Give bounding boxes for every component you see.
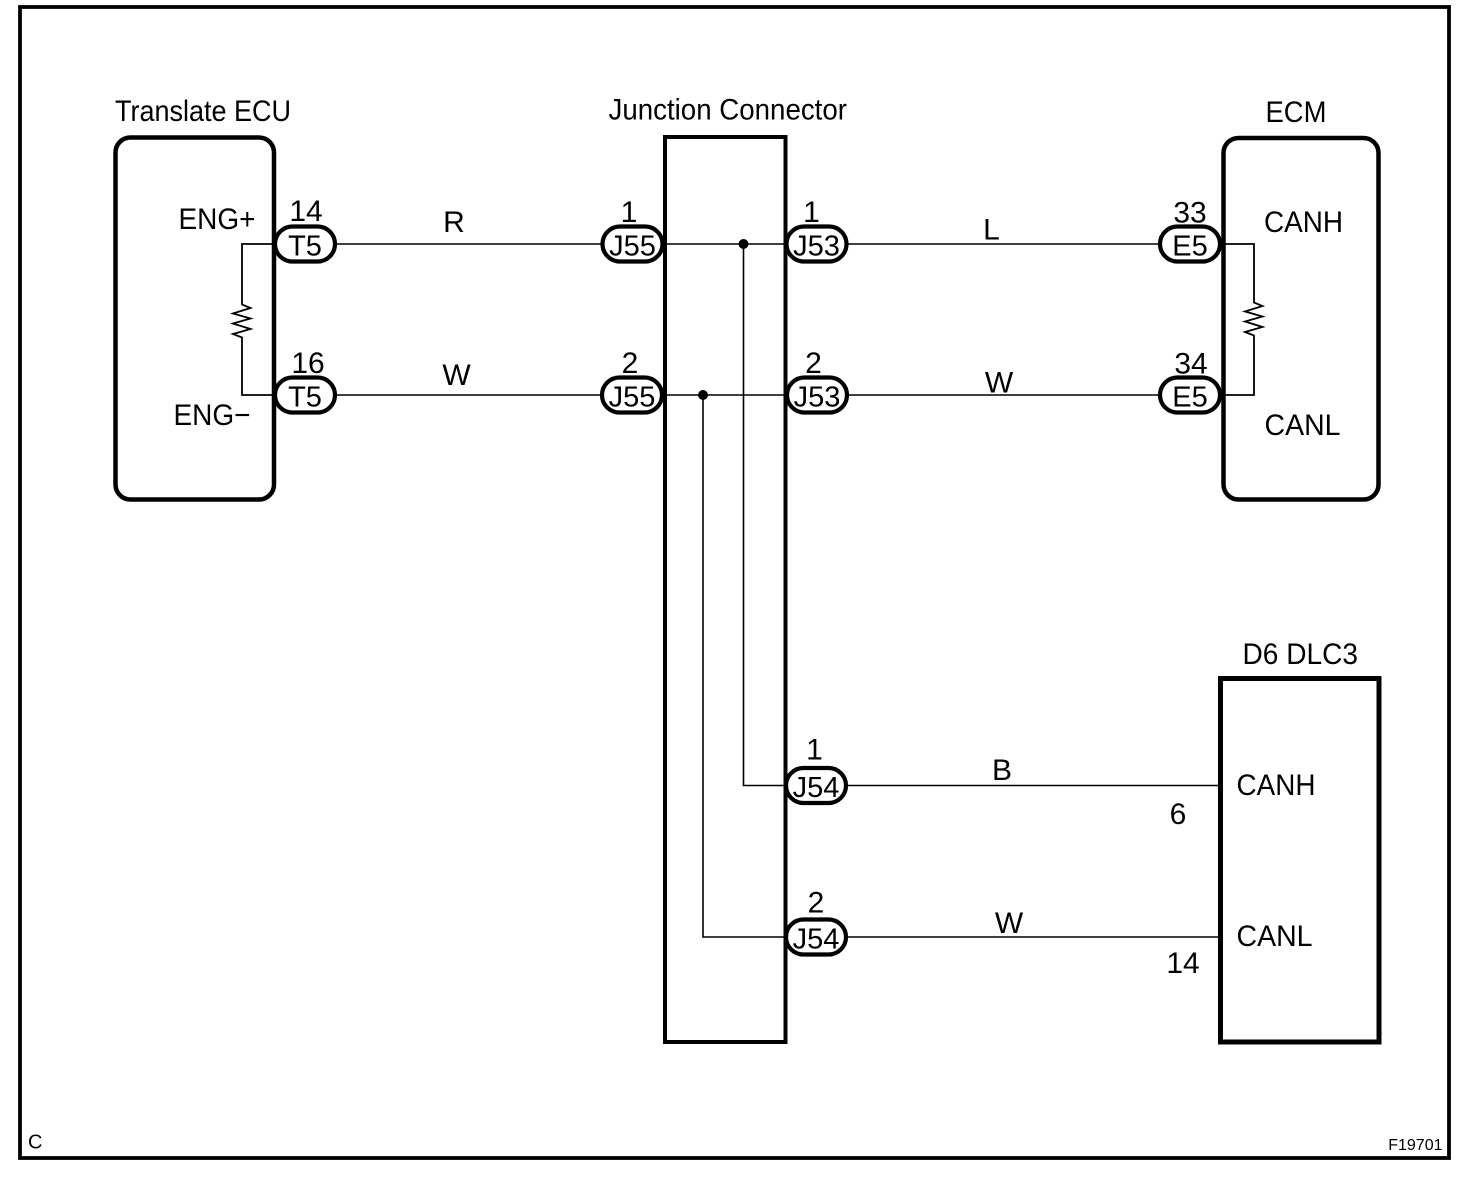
svg-text:Translate ECU: Translate ECU [115, 95, 291, 128]
svg-text:W: W [442, 359, 471, 392]
connector oval J54 pin 1 [786, 734, 846, 805]
svg-text:J54: J54 [793, 924, 840, 956]
wire: J54.1 to DLC3 CANH [816, 785, 1220, 787]
connector oval J53 pin 2 [787, 347, 847, 414]
svg-text:14: 14 [1166, 947, 1199, 980]
svg-text:T5: T5 [288, 382, 322, 414]
connector oval E5 pin 33 [1160, 197, 1220, 263]
svg-text:6: 6 [1170, 798, 1187, 831]
svg-text:2: 2 [622, 347, 639, 380]
junction node dot (CANL branch) [698, 390, 708, 400]
svg-text:L: L [983, 214, 1000, 247]
svg-text:E5: E5 [1172, 231, 1207, 263]
connector oval J53 pin 1 [787, 196, 847, 263]
wire: J54.2 to DLC3 CANL [816, 936, 1220, 938]
svg-text:J54: J54 [793, 772, 840, 804]
svg-text:F19701: F19701 [1388, 1137, 1442, 1154]
connector oval T5 pin 14 [275, 195, 335, 263]
svg-text:ENG+: ENG+ [179, 203, 256, 236]
svg-text:1: 1 [806, 734, 823, 767]
svg-text:B: B [992, 754, 1012, 787]
svg-text:J53: J53 [793, 231, 840, 263]
svg-text:CANL: CANL [1265, 409, 1341, 442]
svg-text:C: C [28, 1132, 42, 1154]
wire: branch J55.2 down to J54.2 [703, 395, 816, 937]
wire: CANH bus T5.14 to J55.1 to J53.1 to E5.33 [305, 243, 1190, 245]
svg-text:D6 DLC3: D6 DLC3 [1243, 638, 1359, 671]
connector oval J55 pin 1 [603, 196, 663, 263]
svg-text:W: W [995, 907, 1024, 940]
resistor (terminating resistor inside ECM) with wire [1190, 244, 1263, 395]
svg-text:ENG−: ENG− [174, 399, 251, 432]
svg-text:33: 33 [1173, 197, 1206, 230]
svg-text:1: 1 [621, 196, 638, 229]
ECU box E5 (ECM) [1224, 138, 1379, 500]
svg-text:W: W [985, 367, 1014, 400]
svg-text:J53: J53 [794, 382, 841, 414]
connector oval E5 pin 34 [1160, 348, 1220, 414]
svg-text:16: 16 [291, 347, 324, 380]
svg-text:R: R [443, 206, 465, 239]
svg-text:14: 14 [289, 195, 322, 228]
svg-text:Junction Connector: Junction Connector [609, 94, 848, 127]
svg-text:CANL: CANL [1237, 920, 1313, 953]
svg-text:E5: E5 [1172, 382, 1207, 414]
wire: branch J53.1 down to J54.1 [744, 244, 817, 786]
junction node dot (CANH branch) [739, 239, 749, 249]
svg-text:T5: T5 [288, 231, 322, 263]
svg-text:1: 1 [803, 196, 820, 229]
ECU box T5 (Translate ECU) [116, 138, 275, 500]
connector oval J54 pin 2 [786, 887, 846, 956]
svg-text:2: 2 [808, 887, 825, 920]
connector oval J55 pin 2 [602, 347, 662, 414]
connector oval T5 pin 16 [275, 347, 335, 414]
svg-text:CANH: CANH [1237, 769, 1316, 802]
svg-text:J55: J55 [609, 231, 656, 263]
connector box D6 DLC3 [1221, 679, 1380, 1043]
svg-text:2: 2 [805, 347, 822, 380]
wire: CANL bus T5.16 to J55.2 to J53.2 to E5.34 [305, 394, 1190, 396]
svg-text:CANH: CANH [1264, 206, 1343, 239]
svg-text:ECM: ECM [1266, 96, 1327, 129]
resistor (terminating resistor inside Translate ECU) with wire [233, 244, 305, 395]
svg-text:34: 34 [1174, 348, 1207, 381]
junction connector box [665, 137, 786, 1042]
svg-text:J55: J55 [609, 382, 656, 414]
